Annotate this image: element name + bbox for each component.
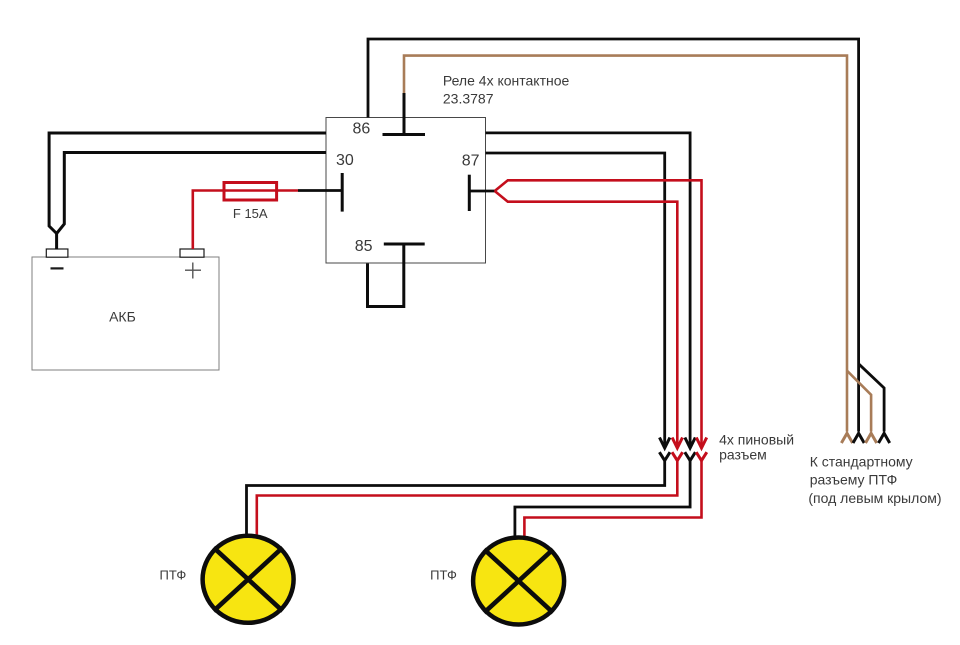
svg-text:23.3787: 23.3787 xyxy=(443,91,494,107)
svg-text:ПТФ: ПТФ xyxy=(430,568,457,583)
svg-text:К стандартному: К стандартному xyxy=(810,454,913,470)
svg-text:(под левым крылом): (под левым крылом) xyxy=(808,490,941,506)
svg-text:F 15A: F 15A xyxy=(233,206,268,221)
svg-text:разъем: разъем xyxy=(719,447,767,463)
svg-text:разъему ПТФ: разъему ПТФ xyxy=(810,471,898,487)
svg-text:Реле 4х контактное: Реле 4х контактное xyxy=(443,72,570,88)
svg-text:85: 85 xyxy=(355,238,373,255)
svg-text:30: 30 xyxy=(336,152,354,169)
svg-text:АКБ: АКБ xyxy=(109,308,136,324)
svg-text:4х пиновый: 4х пиновый xyxy=(719,432,794,448)
svg-text:86: 86 xyxy=(353,120,371,137)
svg-text:87: 87 xyxy=(462,153,480,170)
svg-text:ПТФ: ПТФ xyxy=(160,568,187,583)
